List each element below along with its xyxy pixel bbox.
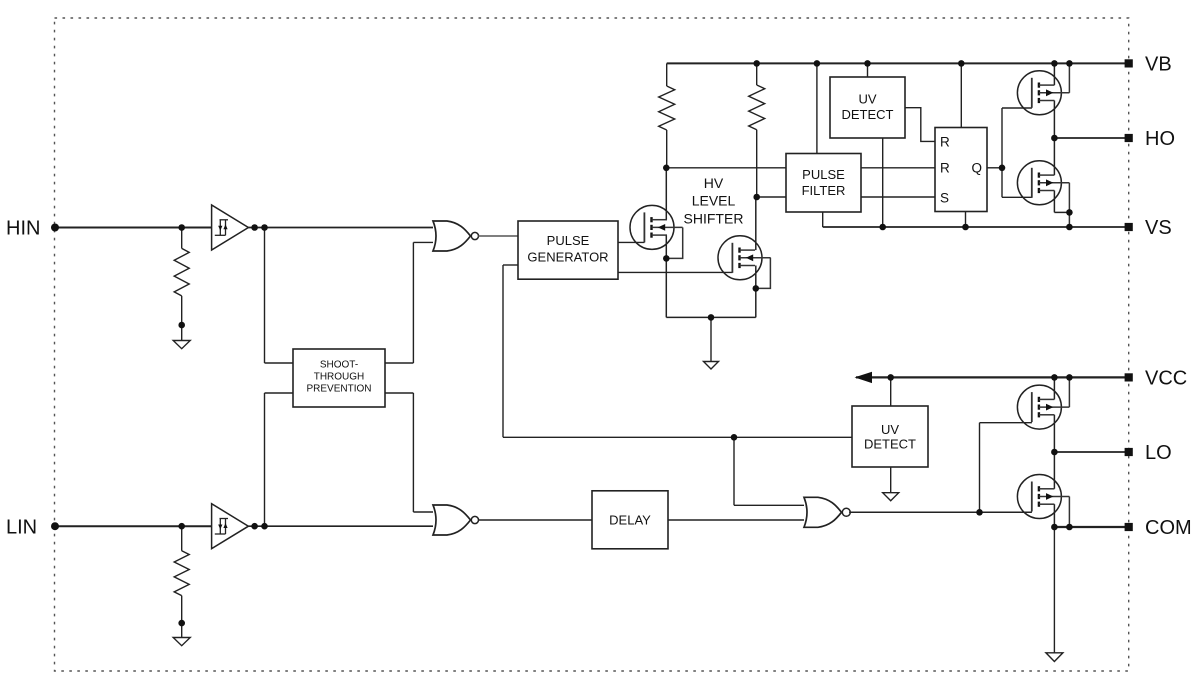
svg-text:UV: UV bbox=[881, 422, 899, 437]
svg-text:VB: VB bbox=[1145, 53, 1172, 75]
svg-text:THROUGH: THROUGH bbox=[314, 372, 365, 383]
svg-text:LIN: LIN bbox=[6, 516, 37, 538]
svg-text:PULSE: PULSE bbox=[802, 167, 845, 182]
svg-text:COM: COM bbox=[1145, 517, 1192, 539]
svg-text:SHOOT-: SHOOT- bbox=[320, 360, 358, 371]
svg-text:VCC: VCC bbox=[1145, 367, 1187, 389]
svg-text:GENERATOR: GENERATOR bbox=[527, 250, 608, 265]
svg-text:R: R bbox=[940, 161, 950, 176]
svg-text:FILTER: FILTER bbox=[802, 183, 846, 198]
svg-text:LO: LO bbox=[1145, 442, 1172, 464]
svg-text:SHIFTER: SHIFTER bbox=[684, 210, 744, 226]
svg-text:HO: HO bbox=[1145, 128, 1175, 150]
svg-text:S: S bbox=[940, 190, 949, 205]
svg-text:VS: VS bbox=[1145, 217, 1172, 239]
svg-text:DETECT: DETECT bbox=[842, 107, 894, 122]
svg-text:R: R bbox=[940, 135, 950, 150]
svg-text:UV: UV bbox=[858, 91, 876, 106]
svg-text:HV: HV bbox=[704, 175, 724, 191]
svg-text:PULSE: PULSE bbox=[547, 233, 590, 248]
svg-text:DETECT: DETECT bbox=[864, 437, 916, 452]
svg-text:LEVEL: LEVEL bbox=[692, 193, 736, 209]
svg-text:PREVENTION: PREVENTION bbox=[306, 383, 371, 394]
svg-text:HIN: HIN bbox=[6, 218, 40, 240]
svg-text:Q: Q bbox=[971, 161, 982, 176]
svg-text:DELAY: DELAY bbox=[609, 512, 651, 527]
